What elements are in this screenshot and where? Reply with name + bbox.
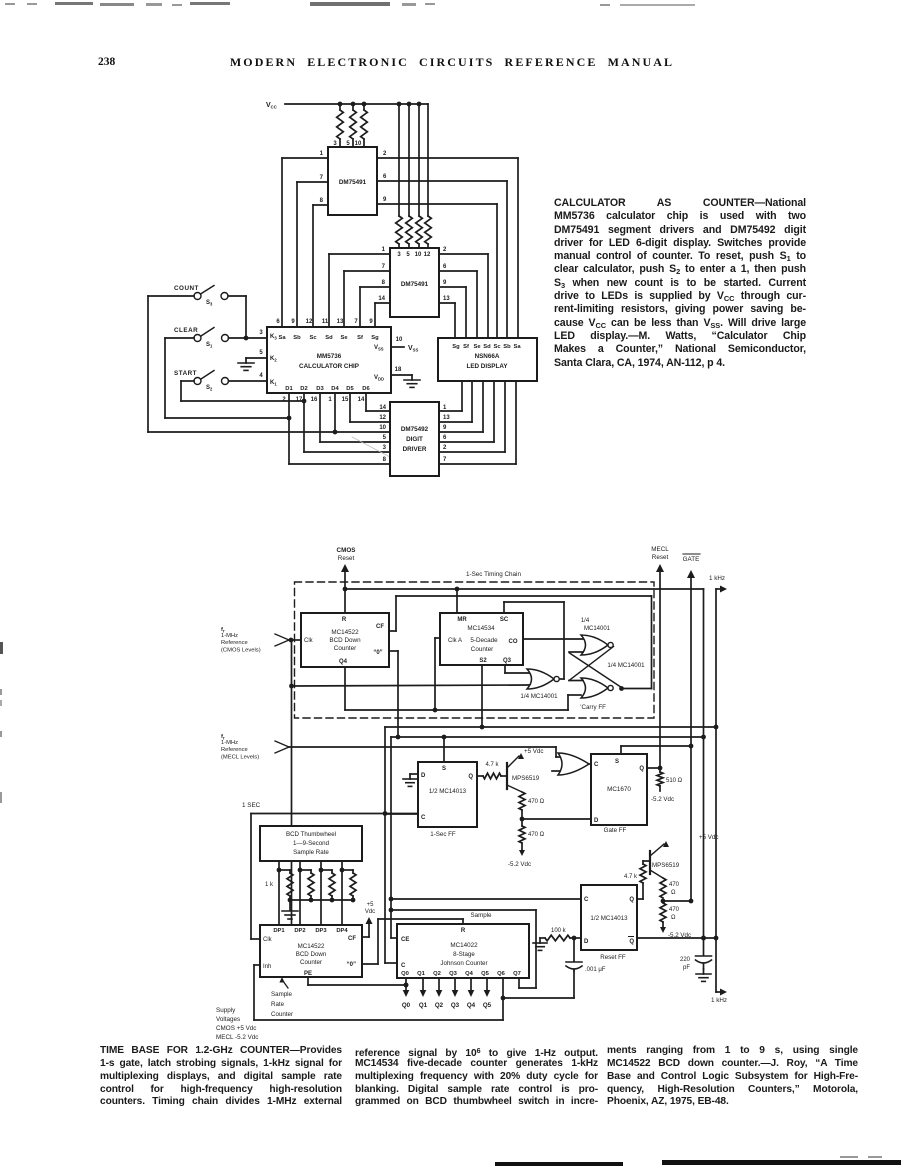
svg-text:Reset: Reset <box>338 555 355 562</box>
svg-text:3: 3 <box>259 330 263 336</box>
svg-text:6: 6 <box>383 174 387 180</box>
svg-text:9: 9 <box>383 197 387 203</box>
svg-text:Q4: Q4 <box>339 659 348 665</box>
svg-text:S3: S3 <box>206 300 213 307</box>
svg-text:12: 12 <box>424 252 431 258</box>
svg-text:C: C <box>401 963 406 969</box>
svg-text:470 Ω: 470 Ω <box>528 832 545 838</box>
svg-text:CE: CE <box>401 937 409 943</box>
svg-text:MC14001: MC14001 <box>584 626 611 632</box>
svg-text:CF: CF <box>376 624 384 630</box>
svg-text:14: 14 <box>378 296 385 302</box>
svg-text:D2: D2 <box>300 386 307 392</box>
svg-text:-5.2 Vdc: -5.2 Vdc <box>508 861 531 868</box>
svg-text:S2: S2 <box>479 658 487 664</box>
svg-text:MC14522: MC14522 <box>298 943 325 950</box>
svg-text:Se: Se <box>473 344 481 350</box>
svg-text:6: 6 <box>443 264 447 270</box>
svg-text:SC: SC <box>500 617 509 623</box>
svg-text:MC14522: MC14522 <box>331 629 359 636</box>
svg-text:14: 14 <box>358 397 365 403</box>
svg-text:1-Sec Timing Chain: 1-Sec Timing Chain <box>466 571 521 578</box>
svg-text:6: 6 <box>276 319 280 325</box>
svg-text:-5.2 Vdc: -5.2 Vdc <box>651 796 674 803</box>
svg-text:13: 13 <box>337 319 344 325</box>
svg-text:Q0: Q0 <box>401 971 409 977</box>
svg-text:CMOS +5 Vdc: CMOS +5 Vdc <box>216 1025 256 1032</box>
svg-text:Q2: Q2 <box>435 1002 444 1009</box>
svg-text:15: 15 <box>342 397 349 403</box>
svg-text:1/4 MC14001: 1/4 MC14001 <box>607 662 645 669</box>
svg-text:Q3: Q3 <box>449 971 458 977</box>
svg-text:MR: MR <box>457 617 467 623</box>
svg-text:C: C <box>421 815 426 821</box>
svg-text:3: 3 <box>383 445 387 451</box>
svg-text:1: 1 <box>382 247 386 253</box>
svg-text:Sc: Sc <box>309 335 317 341</box>
svg-text:Vdc: Vdc <box>365 909 375 915</box>
svg-text:R: R <box>342 617 347 623</box>
svg-text:6: 6 <box>443 435 447 441</box>
svg-text:DM75491: DM75491 <box>339 179 367 186</box>
svg-text:S: S <box>615 759 619 765</box>
svg-text:CMOS: CMOS <box>337 547 356 554</box>
svg-text:COUNT: COUNT <box>174 285 199 292</box>
svg-text:470: 470 <box>669 907 680 913</box>
svg-text:2: 2 <box>443 445 447 451</box>
svg-text:1—9-Second: 1—9-Second <box>293 840 330 847</box>
svg-text:1-MHz: 1-MHz <box>221 633 238 639</box>
svg-text:Reference: Reference <box>221 640 248 646</box>
svg-text:Sample: Sample <box>471 912 493 919</box>
svg-text:Counter: Counter <box>271 1011 293 1018</box>
svg-text:MC14534: MC14534 <box>467 625 495 632</box>
svg-text:1/4: 1/4 <box>581 618 590 624</box>
svg-text:Counter: Counter <box>300 959 322 966</box>
svg-text:220: 220 <box>680 957 691 963</box>
svg-text:5-Decade: 5-Decade <box>470 637 498 644</box>
svg-text:PE: PE <box>304 971 312 977</box>
svg-text:Rate: Rate <box>271 1001 285 1008</box>
svg-text:C: C <box>594 762 599 768</box>
svg-text:Q7: Q7 <box>513 971 521 977</box>
svg-text:+5: +5 <box>367 902 375 908</box>
svg-text:Se: Se <box>340 335 348 341</box>
svg-text:8: 8 <box>382 280 386 286</box>
svg-text:CALCULATOR CHIP: CALCULATOR CHIP <box>299 363 359 370</box>
svg-text:Q1: Q1 <box>417 971 426 977</box>
svg-text:S2: S2 <box>206 385 213 392</box>
svg-text:Sg: Sg <box>452 344 460 350</box>
svg-text:’Carry FF: ’Carry FF <box>580 704 606 711</box>
svg-text:Q3: Q3 <box>451 1002 460 1009</box>
svg-text:1 kHz: 1 kHz <box>709 575 725 582</box>
svg-text:Sb: Sb <box>293 335 301 341</box>
svg-text:1 SEC: 1 SEC <box>242 802 261 809</box>
svg-text:Q6: Q6 <box>497 971 506 977</box>
svg-text:D: D <box>584 939 589 945</box>
svg-text:1-Sec FF: 1-Sec FF <box>430 831 456 838</box>
svg-text:1/4 MC14001: 1/4 MC14001 <box>520 693 558 700</box>
svg-text:DIGIT: DIGIT <box>406 436 423 443</box>
svg-text:Sf: Sf <box>463 344 469 350</box>
svg-text:Q: Q <box>639 766 644 772</box>
svg-text:1 k: 1 k <box>265 882 274 888</box>
svg-text:10: 10 <box>415 252 422 258</box>
svg-text:Q: Q <box>629 897 634 903</box>
svg-text:9: 9 <box>291 319 295 325</box>
svg-text:Inh: Inh <box>263 964 271 970</box>
svg-text:START: START <box>174 370 197 377</box>
svg-text:Q0: Q0 <box>402 1002 411 1009</box>
svg-text:Clk: Clk <box>304 638 314 644</box>
svg-text:MECL: MECL <box>651 546 669 553</box>
svg-text:D3: D3 <box>316 386 324 392</box>
svg-text:Sb: Sb <box>503 344 511 350</box>
svg-text:1-MHz: 1-MHz <box>221 740 238 746</box>
svg-text:8: 8 <box>383 457 387 463</box>
svg-text:100 k: 100 k <box>551 928 567 934</box>
svg-text:NSN66A: NSN66A <box>475 353 500 360</box>
svg-text:1/2 MC14013: 1/2 MC14013 <box>590 915 628 922</box>
svg-text:Sc: Sc <box>493 344 501 350</box>
svg-text:Sa: Sa <box>278 335 286 341</box>
svg-text:7: 7 <box>354 319 358 325</box>
svg-text:Counter: Counter <box>334 645 356 652</box>
svg-text:DP3: DP3 <box>315 928 327 934</box>
svg-text:Voltages: Voltages <box>216 1016 240 1023</box>
svg-text:10: 10 <box>396 337 403 343</box>
svg-text:D1: D1 <box>285 386 293 392</box>
svg-text:DM75492: DM75492 <box>401 426 429 433</box>
svg-text:5: 5 <box>383 435 387 441</box>
svg-text:4.7 k: 4.7 k <box>485 762 499 768</box>
svg-text:10: 10 <box>379 425 386 431</box>
svg-text:Reset FF: Reset FF <box>600 954 626 961</box>
svg-text:7: 7 <box>320 175 324 181</box>
svg-text:1 kHz: 1 kHz <box>711 997 727 1004</box>
svg-text:K2: K2 <box>270 356 277 363</box>
svg-text:DM75491: DM75491 <box>401 281 429 288</box>
svg-text:CLEAR: CLEAR <box>174 327 198 334</box>
svg-text:VSS: VSS <box>408 345 418 353</box>
svg-text:Sd: Sd <box>325 335 333 341</box>
svg-text:Reset: Reset <box>652 554 669 561</box>
svg-text:2: 2 <box>443 247 447 253</box>
svg-text:BCD Down: BCD Down <box>296 951 327 958</box>
svg-text:470 Ω: 470 Ω <box>528 799 545 805</box>
svg-text:D: D <box>594 818 599 824</box>
svg-text:Johnson Counter: Johnson Counter <box>440 960 487 967</box>
svg-text:D: D <box>421 773 426 779</box>
svg-text:CO: CO <box>509 639 518 645</box>
svg-text:Q4: Q4 <box>467 1002 476 1009</box>
svg-text:+5 Vdc: +5 Vdc <box>699 834 718 841</box>
svg-text:4: 4 <box>259 373 263 379</box>
svg-text:Sd: Sd <box>483 344 491 350</box>
svg-text:D4: D4 <box>331 386 339 392</box>
svg-text:DP1: DP1 <box>273 928 285 934</box>
svg-text:C: C <box>584 897 589 903</box>
svg-text:VCC: VCC <box>266 102 277 110</box>
svg-text:BCD Thumbwheel: BCD Thumbwheel <box>286 831 336 838</box>
svg-text:1: 1 <box>320 151 324 157</box>
svg-text:9: 9 <box>369 319 373 325</box>
svg-text:Counter: Counter <box>471 646 493 653</box>
svg-text:Q1: Q1 <box>419 1002 428 1009</box>
svg-text:Q: Q <box>629 939 634 945</box>
svg-text:12: 12 <box>306 319 313 325</box>
svg-text:DP4: DP4 <box>336 928 348 934</box>
svg-text:Sample: Sample <box>271 991 293 998</box>
svg-text:2: 2 <box>282 397 286 403</box>
svg-text:MPS6519: MPS6519 <box>652 862 680 869</box>
svg-text:DRIVER: DRIVER <box>403 446 427 453</box>
svg-text:Q5: Q5 <box>481 971 490 977</box>
svg-text:LED DISPLAY: LED DISPLAY <box>466 363 508 370</box>
svg-text:11: 11 <box>322 319 329 325</box>
svg-text:K3: K3 <box>270 334 277 341</box>
svg-text:Q4: Q4 <box>465 971 474 977</box>
svg-text:Sa: Sa <box>513 344 521 350</box>
svg-text:VDD: VDD <box>374 375 384 382</box>
svg-text:1: 1 <box>328 397 332 403</box>
svg-text:K1: K1 <box>270 380 277 387</box>
svg-text:16: 16 <box>311 397 318 403</box>
svg-text:8-Stage: 8-Stage <box>453 951 475 958</box>
svg-text:Q: Q <box>468 774 473 780</box>
svg-text:Q3: Q3 <box>503 658 512 664</box>
svg-text:fr: fr <box>221 734 225 741</box>
svg-text:18: 18 <box>395 367 402 373</box>
svg-text:“0”: “0” <box>347 962 356 968</box>
svg-text:D6: D6 <box>362 386 370 392</box>
svg-text:fr: fr <box>221 627 225 634</box>
svg-text:Ω: Ω <box>671 915 676 921</box>
svg-text:Sample Rate: Sample Rate <box>293 849 329 856</box>
svg-text:MM5736: MM5736 <box>317 353 342 360</box>
svg-text:Sg: Sg <box>371 335 379 341</box>
svg-text:470: 470 <box>669 882 680 888</box>
svg-text:Ω: Ω <box>671 890 676 896</box>
svg-text:+5 Vdc: +5 Vdc <box>524 748 543 755</box>
svg-text:S1: S1 <box>206 342 213 349</box>
svg-text:Reference: Reference <box>221 747 248 753</box>
svg-text:(CMOS Levels): (CMOS Levels) <box>221 647 261 653</box>
svg-text:CF: CF <box>348 936 356 942</box>
svg-text:13: 13 <box>443 415 450 421</box>
svg-text:Clk A: Clk A <box>448 638 462 644</box>
svg-text:Clk: Clk <box>263 937 273 943</box>
svg-text:7: 7 <box>382 264 386 270</box>
svg-text:8: 8 <box>320 198 324 204</box>
svg-text:R: R <box>461 928 466 934</box>
svg-text:14: 14 <box>379 405 386 411</box>
svg-text:1: 1 <box>443 405 447 411</box>
svg-text:MC1670: MC1670 <box>607 786 631 793</box>
svg-text:Supply: Supply <box>216 1007 236 1014</box>
svg-text:12: 12 <box>379 415 386 421</box>
svg-text:DP2: DP2 <box>294 928 305 934</box>
svg-text:MECL -5.2 Vdc: MECL -5.2 Vdc <box>216 1034 258 1041</box>
svg-text:2: 2 <box>383 151 387 157</box>
svg-text:VSS: VSS <box>374 345 384 352</box>
svg-text:Q5: Q5 <box>483 1002 492 1009</box>
svg-text:“0”: “0” <box>373 650 382 656</box>
svg-text:9: 9 <box>443 425 447 431</box>
svg-text:MPS6519: MPS6519 <box>512 775 540 782</box>
svg-text:GATE: GATE <box>683 556 700 563</box>
svg-text:S: S <box>442 766 446 772</box>
svg-text:BCD Down: BCD Down <box>329 637 361 644</box>
svg-text:9: 9 <box>443 280 447 286</box>
svg-text:(MECL Levels): (MECL Levels) <box>221 754 259 760</box>
svg-text:Sf: Sf <box>357 335 363 341</box>
svg-text:13: 13 <box>443 296 450 302</box>
svg-text:D5: D5 <box>346 386 354 392</box>
svg-text:pF: pF <box>683 965 690 971</box>
svg-text:Q2: Q2 <box>433 971 441 977</box>
svg-text:7: 7 <box>443 457 447 463</box>
svg-text:1/2 MC14013: 1/2 MC14013 <box>429 788 467 795</box>
svg-text:Gate FF: Gate FF <box>604 827 627 834</box>
svg-text:.001 μF: .001 μF <box>585 967 606 973</box>
svg-text:510 Ω: 510 Ω <box>666 778 683 784</box>
svg-text:5: 5 <box>259 350 263 356</box>
svg-text:MC14022: MC14022 <box>450 942 478 949</box>
svg-text:4.7 k: 4.7 k <box>624 874 638 880</box>
